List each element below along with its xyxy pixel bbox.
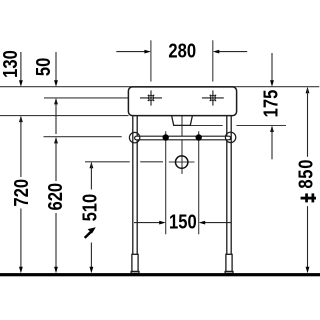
extension line: left fixing bolt [165, 131, 167, 234]
right rail end circle [225, 132, 235, 142]
extension line: right fixing bolt [198, 131, 200, 234]
extension line: recess bottom level right [191, 125, 223, 127]
towel rail bar [135, 136, 231, 140]
svg-text:850: 850 [294, 159, 317, 189]
svg-text:175: 175 [259, 90, 282, 118]
adjustable indicator arrow [85, 231, 92, 238]
dimension 620 [43, 137, 66, 273]
extension tick: left tap hole [150, 40, 152, 81]
extension line: siphon axis left [85, 161, 130, 163]
dimension 50 [32, 52, 58, 134]
svg-text:280: 280 [168, 39, 196, 62]
left leg [131, 116, 139, 274]
svg-text:150: 150 [169, 210, 197, 233]
svg-text:510: 510 [78, 194, 101, 222]
washbasin body [128, 87, 236, 116]
left fixing bolt [163, 134, 169, 140]
svg-text:620: 620 [43, 183, 66, 211]
right fixing bolt [196, 134, 202, 140]
right tap hole mark [202, 90, 224, 105]
floor line [0, 273, 320, 276]
extension tick: right tap hole [212, 40, 214, 81]
dimension 150 [134, 210, 232, 233]
dimension 175 [259, 53, 282, 159]
dimension 720 [9, 118, 32, 273]
extension line: rim top level [0, 86, 319, 88]
svg-text:130: 130 [0, 50, 21, 78]
left rail end circle [129, 132, 139, 142]
drain recess trapezoid [172, 116, 193, 126]
dimension 280 [116, 39, 247, 62]
extension line: tap hole axis [44, 97, 129, 99]
right leg [225, 116, 233, 274]
siphon circle [176, 156, 188, 168]
center line [181, 109, 183, 174]
left tap hole mark [140, 90, 162, 105]
siphon crosshair horizontal [169, 161, 195, 163]
dimension 130 [0, 50, 23, 122]
extension line: towel rail level [44, 136, 122, 138]
svg-text:50: 50 [32, 58, 55, 76]
dimension 510 [78, 162, 101, 273]
adjustable-height dagger mark [301, 197, 316, 200]
dimension 850 [294, 87, 317, 274]
svg-text:720: 720 [9, 179, 32, 207]
extension line: basin bottom level [0, 115, 129, 117]
